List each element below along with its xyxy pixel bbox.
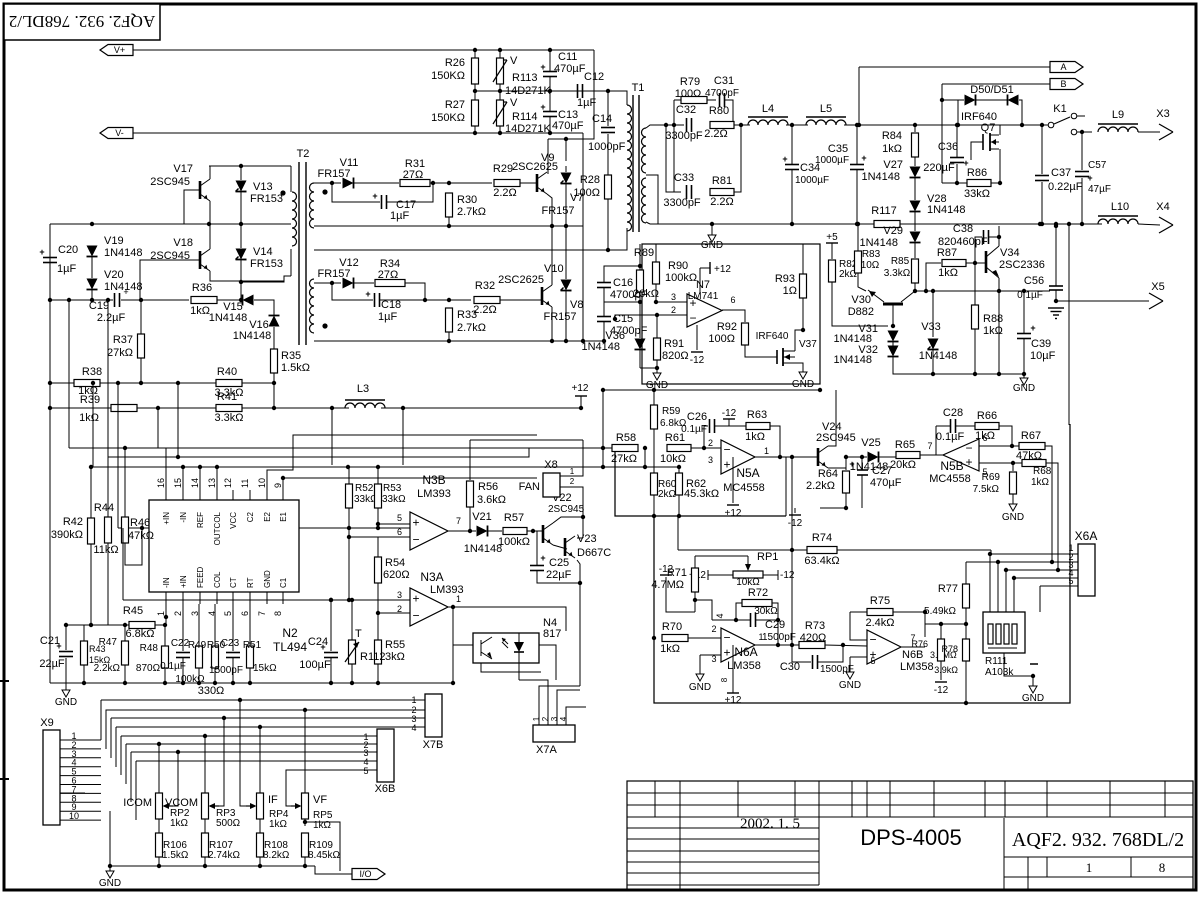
node V15 left bbox=[239, 298, 243, 302]
wire pin15 up bbox=[182, 467, 184, 490]
wire R82 to base bbox=[832, 282, 888, 326]
svg-text:R40: R40 bbox=[217, 366, 237, 378]
svg-text:1N4148: 1N4148 bbox=[919, 350, 958, 362]
svg-text:CT: CT bbox=[229, 577, 238, 588]
wire N3B plus bbox=[378, 523, 410, 525]
wire R54 bottom bbox=[377, 583, 379, 600]
svg-text:V23: V23 bbox=[577, 533, 597, 545]
wire RP5 tap bbox=[304, 819, 306, 826]
resistor R86 bbox=[964, 167, 991, 200]
wire N6B gnd bbox=[849, 657, 851, 670]
resistor R41 bbox=[214, 391, 243, 424]
svg-text:3.3kΩ: 3.3kΩ bbox=[214, 412, 243, 424]
wire C37 column bbox=[1041, 125, 1043, 174]
svg-text:2.2Ω: 2.2Ω bbox=[704, 128, 728, 140]
resistor R61 bbox=[660, 432, 691, 465]
wire X8 pin2 bbox=[560, 487, 583, 538]
svg-text:-12: -12 bbox=[722, 408, 737, 419]
node C37 gnd bbox=[1040, 222, 1044, 226]
wire N3A out bbox=[448, 607, 566, 631]
wire C25 bottom bbox=[537, 571, 580, 583]
wire out line bbox=[915, 290, 1050, 292]
box N7 section bbox=[642, 244, 820, 384]
svg-text:220µF: 220µF bbox=[923, 162, 955, 174]
svg-text:2.2Ω: 2.2Ω bbox=[710, 196, 734, 208]
resistor R47 bbox=[94, 637, 129, 674]
node R71 bot bbox=[693, 598, 697, 602]
title date 2002.1.5 bbox=[740, 816, 800, 832]
wire rail118 bbox=[117, 383, 119, 528]
node +12 to 408 bbox=[579, 406, 583, 410]
svg-text:R41: R41 bbox=[217, 391, 237, 403]
node gndb e bbox=[197, 681, 201, 685]
node C19 left bbox=[48, 298, 52, 302]
svg-text:V29: V29 bbox=[883, 225, 903, 237]
wire V13 bottom bbox=[240, 192, 242, 224]
svg-text:11: 11 bbox=[240, 479, 250, 488]
title block grid bbox=[627, 781, 1193, 890]
svg-text:R117: R117 bbox=[871, 205, 896, 217]
resistor R85 bbox=[884, 256, 919, 283]
svg-text:R39: R39 bbox=[80, 394, 100, 406]
wire bus448 bbox=[69, 447, 612, 449]
wire C24 bottom bbox=[330, 657, 332, 683]
diode D51 bbox=[1008, 95, 1019, 106]
wire bus528 bbox=[118, 527, 430, 529]
transformer T2 secondary winding B bbox=[310, 279, 315, 333]
op-amp N5A bbox=[708, 438, 769, 494]
svg-text:C36: C36 bbox=[938, 141, 958, 153]
svg-text:R70: R70 bbox=[662, 621, 682, 633]
node pin1 down bbox=[164, 615, 168, 619]
wire B drop bbox=[941, 84, 943, 183]
transformer T2 core bbox=[297, 148, 310, 345]
svg-text:X6A: X6A bbox=[1075, 529, 1098, 543]
svg-text:22µF: 22µF bbox=[39, 658, 65, 670]
wire R83 to emitter bbox=[858, 273, 866, 291]
resistor R106 bbox=[156, 833, 189, 861]
svg-text:COL: COL bbox=[213, 571, 222, 588]
resistor R71 bbox=[651, 567, 698, 592]
resistor R89 bbox=[633, 247, 659, 300]
node R58-R61 bbox=[643, 446, 647, 450]
ground N6B bbox=[839, 667, 861, 691]
svg-text:LM741: LM741 bbox=[688, 291, 719, 302]
svg-text:16: 16 bbox=[156, 478, 166, 488]
node R28 bias bbox=[606, 248, 610, 252]
node r39 l bbox=[48, 406, 52, 410]
resistor R48 bbox=[136, 643, 169, 674]
wire N6A out bbox=[755, 644, 799, 646]
node C37 top bbox=[1040, 123, 1044, 127]
node pin13 bbox=[215, 465, 219, 469]
resistor R60 bbox=[651, 473, 677, 500]
wire C11-C13 lead bbox=[549, 77, 551, 111]
svg-text:V7: V7 bbox=[570, 192, 583, 204]
node v13 top bbox=[239, 164, 243, 168]
svg-text:100µF: 100µF bbox=[299, 659, 331, 671]
svg-text:R49: R49 bbox=[188, 640, 207, 651]
connector tag V- bbox=[100, 128, 133, 139]
wire X6B pin1 bbox=[121, 735, 377, 737]
wire gnd stem r111 bbox=[1032, 676, 1034, 684]
svg-text:R53: R53 bbox=[383, 483, 402, 494]
transformer T1 core bbox=[632, 82, 645, 232]
node R68 tap bbox=[1011, 461, 1015, 465]
wire C34 top lead bbox=[791, 125, 793, 164]
svg-text:30kΩ: 30kΩ bbox=[754, 606, 778, 617]
wire X9 riser4 bbox=[115, 727, 117, 767]
svg-text:-IN: -IN bbox=[162, 577, 171, 588]
svg-text:D882: D882 bbox=[848, 306, 874, 318]
svg-text:1N4148: 1N4148 bbox=[859, 237, 898, 249]
svg-text:C33: C33 bbox=[674, 172, 694, 184]
wire output ground bus right bbox=[900, 223, 1102, 225]
capacitor C56 bbox=[1017, 275, 1063, 301]
label pin8 N6A bbox=[720, 677, 729, 682]
svg-text:+: + bbox=[39, 247, 44, 257]
resistor R30 bbox=[446, 193, 487, 218]
svg-text:MC4558: MC4558 bbox=[929, 473, 971, 485]
svg-text:REF: REF bbox=[196, 512, 205, 528]
svg-text:1N4148: 1N4148 bbox=[861, 171, 900, 183]
node r111 l1 bbox=[988, 552, 992, 556]
wire C28 left lead bbox=[936, 425, 950, 427]
wire X6B pin2 bbox=[126, 743, 377, 745]
node R86 right bbox=[998, 181, 1002, 185]
svg-text:C1: C1 bbox=[279, 577, 288, 588]
node V+ C11 bbox=[548, 48, 552, 52]
wire R26 column bbox=[474, 50, 476, 133]
wire RP3 wiper bbox=[219, 718, 224, 806]
wire C14 to R28 bbox=[607, 134, 609, 175]
svg-text:1N4148: 1N4148 bbox=[833, 354, 872, 366]
svg-text:2SC945: 2SC945 bbox=[150, 176, 190, 188]
node b467 b bbox=[376, 465, 380, 469]
wire IO feed bbox=[315, 866, 352, 874]
node pin3 link bbox=[1056, 568, 1060, 572]
wire rail108 bbox=[107, 300, 109, 457]
node C57 top bbox=[1080, 130, 1084, 134]
wire R89 bottom bbox=[639, 292, 641, 338]
wire pin5 drop bbox=[1039, 586, 1041, 612]
node R75 right bbox=[923, 610, 927, 614]
node v9 em bbox=[550, 224, 554, 228]
wire R52 rail down bbox=[348, 528, 350, 600]
wire V24 em to V25 bbox=[846, 456, 867, 458]
resistor R27 bbox=[431, 99, 478, 126]
svg-text:X7A: X7A bbox=[536, 744, 557, 756]
svg-text:D667C: D667C bbox=[577, 547, 611, 559]
varistor R113 bbox=[493, 55, 552, 97]
wire V36 bottom bbox=[639, 350, 641, 368]
wire R59 bottom bbox=[653, 429, 655, 467]
svg-text:R91: R91 bbox=[664, 338, 684, 350]
label R50 value bbox=[198, 685, 225, 697]
wire R46 top bbox=[125, 448, 166, 517]
svg-text:L4: L4 bbox=[762, 103, 774, 115]
svg-text:X8: X8 bbox=[544, 459, 557, 471]
connector X7B bbox=[423, 694, 444, 751]
wire R76 top bbox=[940, 624, 942, 639]
wire R77 top bbox=[965, 562, 967, 584]
svg-text:6: 6 bbox=[240, 611, 250, 616]
node 645 467 bbox=[643, 465, 647, 469]
power -12 V24 bbox=[788, 515, 803, 529]
node V23 em bbox=[578, 581, 582, 585]
svg-text:14D271K: 14D271K bbox=[505, 123, 552, 135]
svg-text:6.8kΩ: 6.8kΩ bbox=[125, 628, 154, 640]
node left v13 bbox=[239, 222, 243, 226]
svg-text:LM358: LM358 bbox=[727, 660, 761, 672]
resistor R80 bbox=[704, 105, 734, 140]
svg-text:100kΩ: 100kΩ bbox=[665, 272, 697, 284]
wire C23 top bbox=[232, 604, 234, 651]
svg-text:R27: R27 bbox=[445, 99, 465, 111]
node R108 bot bbox=[258, 864, 262, 868]
wire drive A return bbox=[314, 225, 583, 227]
wire R71 top bbox=[694, 556, 696, 568]
node r111 l3 bbox=[1004, 568, 1008, 572]
wire -12 rp1 rail bbox=[666, 577, 695, 612]
wire V10 emitter bbox=[551, 307, 553, 341]
node R70 left bbox=[652, 636, 656, 640]
wire N6A pwr bbox=[732, 645, 734, 693]
resistor R56 bbox=[467, 481, 507, 507]
wire gnd tap bbox=[711, 224, 713, 230]
diode V36 bbox=[581, 330, 645, 353]
wire V22 em to V23 bbox=[553, 545, 567, 549]
wire N4 led down bbox=[518, 663, 520, 680]
node R67 drop bbox=[1050, 560, 1054, 564]
wire C21 column bbox=[65, 625, 67, 650]
diode V15 bbox=[209, 295, 254, 325]
wire T1 sec top tap bbox=[646, 125, 674, 128]
wire R91 bottom bbox=[656, 360, 658, 368]
wire V24 drop bbox=[791, 457, 793, 550]
plus C18 bbox=[365, 289, 370, 299]
svg-text:R93: R93 bbox=[775, 273, 795, 285]
svg-text:2: 2 bbox=[708, 438, 713, 448]
wire R76 bottom bbox=[940, 661, 942, 680]
wire V24 coll bbox=[828, 390, 836, 446]
svg-text:V21: V21 bbox=[472, 511, 492, 523]
pin numbers X7B bbox=[411, 695, 416, 733]
pot R112 bbox=[345, 628, 385, 664]
svg-text:15: 15 bbox=[173, 478, 183, 488]
node V22 coll bbox=[581, 515, 585, 519]
wire RP3 top bbox=[204, 736, 206, 793]
ground N7 bbox=[646, 368, 668, 391]
svg-text:27kΩ: 27kΩ bbox=[611, 453, 637, 465]
wire +12 bus bbox=[603, 389, 820, 391]
svg-text:150KΩ: 150KΩ bbox=[431, 70, 465, 82]
svg-text:R51: R51 bbox=[243, 640, 262, 651]
svg-text:R45: R45 bbox=[123, 605, 143, 617]
node R106 bot bbox=[157, 864, 161, 868]
svg-text:+: + bbox=[861, 153, 866, 163]
wire drive A top bbox=[314, 182, 341, 184]
wire L4 to L5 bbox=[786, 124, 808, 126]
wire R59 top bbox=[653, 390, 655, 405]
wire X7B pin2 bbox=[372, 709, 425, 711]
node gndb a bbox=[82, 681, 86, 685]
wire R55 bottom bbox=[377, 664, 379, 683]
wire D51 right bbox=[1019, 100, 1022, 125]
svg-text:13: 13 bbox=[207, 478, 217, 488]
node +12 right bbox=[818, 388, 822, 392]
wire D50-D51 bbox=[976, 99, 1007, 101]
capacitor C36 bbox=[923, 141, 968, 174]
wire R89 top bbox=[639, 244, 641, 270]
capacitor C57 bbox=[1075, 160, 1111, 195]
svg-text:2SC2336: 2SC2336 bbox=[999, 259, 1045, 271]
svg-text:3: 3 bbox=[671, 292, 676, 302]
wire R52 top bbox=[348, 467, 350, 484]
node R107 bot bbox=[203, 864, 207, 868]
transistor V22 bbox=[543, 492, 585, 545]
svg-text:R67: R67 bbox=[1021, 430, 1041, 442]
IC N4 817 bbox=[473, 617, 561, 663]
svg-text:820Ω: 820Ω bbox=[662, 350, 689, 362]
node R33 top bbox=[447, 298, 451, 302]
wire N5A fb drop bbox=[785, 457, 787, 516]
svg-text:IRF640: IRF640 bbox=[756, 331, 789, 342]
wire R88 bottom bbox=[974, 329, 976, 374]
node R91 pin2 bbox=[655, 313, 659, 317]
wire X6B pin3 bbox=[131, 751, 377, 753]
capacitor C19 bbox=[89, 287, 129, 324]
fold mark lower bbox=[0, 778, 9, 780]
wire R30 bottom bbox=[448, 217, 450, 226]
svg-text:+: + bbox=[412, 592, 419, 606]
node gndb c bbox=[163, 681, 167, 685]
node R74 tap bbox=[790, 548, 794, 552]
svg-text:5: 5 bbox=[870, 656, 875, 666]
svg-text:OUTCOL: OUTCOL bbox=[213, 511, 222, 545]
svg-text:2.7kΩ: 2.7kΩ bbox=[457, 206, 486, 218]
wire R68 right bbox=[1046, 463, 1058, 570]
node pin2 node bbox=[702, 446, 706, 450]
svg-text:−: − bbox=[689, 311, 696, 325]
svg-text:4.7MΩ: 4.7MΩ bbox=[651, 579, 684, 591]
node RP5 top bbox=[303, 708, 307, 712]
box N5A loop bbox=[615, 448, 786, 516]
node R90 pin3 bbox=[654, 300, 658, 304]
capacitor C25 bbox=[530, 553, 572, 581]
node R33 bot bbox=[447, 339, 451, 343]
wire V14 bottom bbox=[240, 260, 242, 300]
wire C13 lead bbox=[549, 117, 551, 133]
svg-text:1µF: 1µF bbox=[378, 311, 397, 323]
svg-text:R52: R52 bbox=[355, 483, 374, 494]
svg-text:N7: N7 bbox=[696, 279, 710, 291]
svg-text:ICOM: ICOM bbox=[123, 797, 152, 809]
label pin7 N6B bbox=[910, 633, 915, 643]
wire A drop bbox=[858, 67, 860, 125]
node C18 left bbox=[330, 281, 334, 285]
wire R57 right bbox=[527, 530, 543, 532]
node gndb l bbox=[451, 681, 455, 685]
R111 internal resistors bbox=[988, 624, 1017, 648]
label pin5 N6B bbox=[870, 656, 875, 666]
wire N6B plus bbox=[850, 656, 867, 658]
power +5 bbox=[826, 232, 838, 243]
resistor R26 bbox=[431, 57, 478, 84]
transistor V34 bbox=[986, 246, 1045, 278]
wire V29 to R85 bbox=[914, 243, 916, 258]
node L3 right bbox=[401, 406, 405, 410]
wire R53 top bbox=[377, 467, 379, 484]
svg-text:RT: RT bbox=[246, 577, 255, 588]
resistor R58 bbox=[611, 432, 638, 465]
transistor V10 bbox=[498, 263, 564, 307]
node c15 bot bbox=[602, 339, 606, 343]
wire R90 bottom bbox=[655, 284, 657, 302]
svg-text:0.22µF: 0.22µF bbox=[1048, 181, 1083, 193]
node R30 top bbox=[447, 181, 451, 185]
pot RP4 bbox=[246, 793, 289, 830]
node gndb i bbox=[329, 681, 333, 685]
wire gnd bus TL494 bbox=[50, 682, 320, 684]
svg-text:7: 7 bbox=[257, 611, 267, 616]
wire bus457 bbox=[108, 448, 529, 457]
wire C57 bottom bbox=[1081, 178, 1083, 224]
wire C21 bottom bbox=[65, 658, 67, 683]
node gnd2 C39 bbox=[1022, 372, 1026, 376]
svg-text:E2: E2 bbox=[263, 511, 272, 521]
node gndb f bbox=[213, 681, 217, 685]
resistor R37 bbox=[107, 334, 144, 359]
pin numbers N2 top bbox=[156, 478, 283, 500]
resistor R117 bbox=[871, 205, 900, 228]
svg-text:1: 1 bbox=[764, 446, 769, 456]
svg-text:V33: V33 bbox=[921, 321, 941, 333]
svg-text:N6B: N6B bbox=[902, 649, 923, 661]
capacitor C37 bbox=[1035, 167, 1083, 193]
svg-text:3300pF: 3300pF bbox=[663, 197, 701, 209]
node gndb g bbox=[231, 681, 235, 685]
power -12 RP1 bbox=[763, 570, 795, 581]
svg-text:6: 6 bbox=[730, 295, 735, 305]
node R84 top bbox=[913, 123, 917, 127]
wire R86 row bbox=[942, 182, 967, 184]
wire R111 gnd bbox=[1004, 653, 1033, 676]
svg-text:AQF2. 932. 768DL/2: AQF2. 932. 768DL/2 bbox=[9, 12, 155, 31]
svg-text:6: 6 bbox=[397, 527, 402, 537]
wire R64 top bbox=[845, 457, 847, 470]
svg-text:3.9kΩ: 3.9kΩ bbox=[934, 665, 958, 675]
wire pin4 lead bbox=[712, 619, 736, 621]
connector X8 bbox=[519, 459, 575, 497]
diode V14 bbox=[236, 246, 284, 270]
wire N6B out bbox=[901, 646, 925, 648]
wire snubber2 right leg bbox=[734, 125, 741, 192]
wire N5B pin6 bbox=[979, 445, 1019, 447]
node R46 528 bbox=[140, 526, 144, 530]
wire T2 prim bottom bbox=[290, 249, 292, 276]
wire RP5 top bbox=[304, 710, 306, 793]
wire C38 right bbox=[989, 236, 999, 238]
node b528 b bbox=[376, 526, 380, 530]
svg-text:8.45kΩ: 8.45kΩ bbox=[308, 850, 340, 861]
node V14 bot bbox=[239, 280, 243, 284]
wire V37 drain bbox=[795, 330, 803, 351]
svg-text:3: 3 bbox=[708, 455, 713, 465]
node R73 left bbox=[790, 643, 794, 647]
node bus x4 b bbox=[1054, 222, 1058, 226]
node gndb j bbox=[350, 681, 354, 685]
